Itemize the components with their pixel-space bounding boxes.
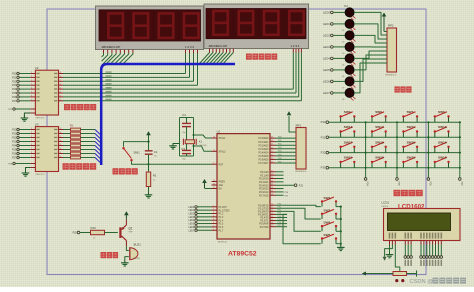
wire: LCD data pins D0-D7 terminals [420,245,443,267]
svg-text:P23: P23 [12,84,17,87]
svg-text:P07: P07 [278,161,281,163]
svg-text:P33: P33 [278,213,281,215]
svg-text:LED7: LED7 [188,230,194,232]
power VCC arrow (RP1 common) [287,111,296,132]
switch SW15 [402,140,418,152]
wire: P1 port to LED nets [188,206,211,233]
svg-text:P25: P25 [12,92,17,95]
svg-text:LED5: LED5 [188,224,194,226]
resistor R1 [146,164,157,194]
wire: RST from reset circuit [149,163,212,165]
switch SW14 [434,140,450,152]
node P35 terminal (buzzer drive) [73,231,91,234]
svg-text:P21: P21 [12,133,17,136]
microcontroller U1 AT89C52 [212,129,276,243]
svg-text:P2.7/A15: P2.7/A15 [259,194,269,197]
svg-text:19: 19 [59,72,61,74]
svg-text:SW7: SW7 [407,110,414,114]
svg-text:P00: P00 [278,137,281,139]
svg-text:5: 5 [213,219,214,221]
svg-text:10: 10 [271,204,273,206]
svg-text:SW5: SW5 [324,233,331,237]
svg-text:P35: P35 [73,233,78,235]
switch SW12 [371,125,387,137]
wire: LCD VDD to power-down arrow [383,245,393,261]
svg-text:29: 29 [213,180,215,182]
switch SW20 [371,156,387,168]
svg-text:P33: P33 [321,166,326,170]
svg-text:P2.0/A8: P2.0/A8 [260,171,269,174]
wire: buzzer to ground [125,257,129,262]
latch U2 74HC573 (digit-select latch) [30,66,63,120]
switch SW10 [434,125,450,137]
svg-text:PNP: PNP [129,232,134,234]
svg-text:6: 6 [213,222,214,224]
svg-text:P25: P25 [299,185,304,187]
svg-text:SW14: SW14 [438,140,447,144]
LED D4 [323,42,355,55]
label: segment latch (red CJK) [63,163,97,170]
svg-text:38: 38 [271,140,273,142]
switch SW16 [371,140,387,152]
LED D1 [323,4,355,20]
svg-text:2: 2 [31,128,32,130]
svg-text:14: 14 [59,148,61,150]
ground: U2 output-enable [21,113,36,121]
svg-text:SW12: SW12 [375,125,384,129]
svg-text:P1.2: P1.2 [219,214,224,216]
svg-text:SW9: SW9 [344,110,351,114]
resistor R10 [91,226,118,240]
svg-text:P02: P02 [278,144,281,146]
wire: DS2 digit-select pins down to latch lines [293,49,301,101]
svg-text:30p: 30p [182,158,185,160]
svg-text:37: 37 [271,144,273,146]
svg-text:X1: X1 [199,139,203,143]
LED D3 [323,31,355,44]
bus: segment data bus (blue) [101,64,235,165]
svg-text:ABCDEFG DP: ABCDEFG DP [102,45,121,49]
switch SW5 [321,233,342,245]
svg-text:R1: R1 [153,174,157,178]
svg-text:Q1: Q1 [128,226,132,230]
svg-text:30: 30 [213,184,215,186]
svg-text:RESPACK-8: RESPACK-8 [295,170,307,173]
svg-text:AT89C52: AT89C52 [228,250,257,257]
wire: DS2 segment pins to bus taps [200,49,234,64]
svg-text:P24: P24 [12,88,17,91]
svg-text:22u: 22u [154,156,157,158]
svg-text:PSEN: PSEN [219,182,226,184]
svg-text:P1.5: P1.5 [219,224,224,226]
power VCC arrow (Q1 emitter) [124,211,129,219]
wire: LED to RP2 bundle [354,12,387,93]
svg-text:P0.0/AD0: P0.0/AD0 [259,137,270,140]
svg-text:P32: P32 [278,210,281,212]
svg-text:24: 24 [271,180,273,182]
svg-text:P37: P37 [278,225,281,227]
svg-text:LED6: LED6 [188,227,194,229]
svg-text:LED5: LED5 [323,68,330,72]
svg-text:P31: P31 [278,207,281,209]
power VCC arrow (reset) [146,131,151,144]
svg-text:LED1: LED1 [323,22,330,26]
svg-text:LM016L: LM016L [381,206,389,208]
svg-text:P0.4/AD4: P0.4/AD4 [259,151,270,154]
svg-text:U2: U2 [35,66,39,70]
capacitor C2 [182,113,191,139]
svg-text:P3.4/T0: P3.4/T0 [260,218,269,220]
svg-text:21: 21 [271,170,273,172]
svg-text:23: 23 [271,177,273,179]
svg-text:LED0: LED0 [323,10,330,14]
svg-text:LED2: LED2 [188,214,194,216]
svg-text:13: 13 [271,213,273,215]
7-segment display module DS2 [204,4,309,49]
wire: contrast feed with off-page arrow [362,272,391,276]
svg-text:32: 32 [271,161,273,163]
svg-text:1k: 1k [153,180,155,182]
svg-text:P3.7/RD: P3.7/RD [260,227,269,229]
LED D2 [323,19,355,32]
svg-text:P1.0/T2: P1.0/T2 [219,207,228,209]
svg-text:CSDN @: CSDN @ [410,279,434,285]
node P27: U2 latch-enable terminal [8,108,35,111]
svg-text:18: 18 [213,150,215,152]
svg-text:RP2: RP2 [388,23,394,27]
svg-text:9: 9 [31,156,32,158]
ground: LCD VSS [386,245,394,258]
svg-text:31: 31 [213,187,215,189]
svg-text:RP1: RP1 [296,123,302,127]
switch SW9 [339,110,355,122]
svg-text:SW20: SW20 [375,156,384,160]
LED D8 [323,88,355,101]
svg-text:P2.3/A11: P2.3/A11 [259,181,269,184]
svg-text:ABCDEFG DP: ABCDEFG DP [209,44,228,48]
svg-text:P0.3/AD3: P0.3/AD3 [259,148,270,151]
switch SW19 [402,156,418,168]
svg-text:P05: P05 [278,154,281,156]
capacitor C3 [181,144,191,160]
svg-text:22: 22 [271,174,273,176]
7-segment display module DS1 [96,6,204,50]
svg-text:XTAL2: XTAL2 [219,151,227,154]
crystal oscillator rails [180,118,194,157]
svg-text:P2.1/A9: P2.1/A9 [260,174,269,177]
svg-text:LED1: LED1 [188,210,194,212]
svg-text:D4: D4 [342,53,344,55]
svg-text:BUZ1: BUZ1 [134,242,142,246]
svg-text:15: 15 [271,219,273,221]
svg-text:11: 11 [271,207,273,209]
svg-text:8: 8 [31,152,32,154]
svg-text:D1: D1 [344,4,348,8]
svg-text:P03: P03 [278,147,281,149]
svg-text:P26: P26 [12,96,17,99]
svg-text:C1: C1 [154,150,158,154]
svg-text:19: 19 [213,137,215,139]
svg-text:P24: P24 [12,145,17,148]
svg-text:74HC573: 74HC573 [35,118,45,120]
ground: SW rail [337,245,345,250]
svg-text:LCD1602: LCD1602 [398,204,425,211]
svg-text:P1.4: P1.4 [219,220,224,222]
svg-text:P20: P20 [12,129,17,132]
svg-text:P36: P36 [428,182,430,187]
svg-text:74HC573: 74HC573 [35,174,45,176]
svg-text:36: 36 [271,147,273,149]
svg-text:SW1: SW1 [134,151,141,155]
svg-text:LED3: LED3 [323,45,330,49]
svg-text:P25: P25 [12,149,17,152]
svg-text:27: 27 [271,190,273,192]
svg-text:D3: D3 [342,42,344,44]
svg-text:P2.6/A14: P2.6/A14 [259,191,269,194]
power VCC arrow (RP2 common) [382,13,387,32]
svg-text:D8: D8 [342,99,344,101]
svg-text:LED3: LED3 [188,217,194,219]
wire: U2 input pins with terminals [12,72,30,103]
buzzer BUZ1 [130,242,141,259]
LED D5 [323,54,355,67]
svg-text:17: 17 [59,136,61,138]
svg-text:18: 18 [59,132,61,134]
svg-text:LCD1: LCD1 [381,201,389,205]
svg-text:P31: P31 [321,135,326,139]
svg-text:12: 12 [59,156,61,158]
svg-text:P0.2/AD2: P0.2/AD2 [259,144,270,147]
svg-text:P21: P21 [12,76,17,79]
switch SW8 [371,110,387,122]
svg-text:SW16: SW16 [375,140,384,144]
svg-text:28: 28 [271,194,273,196]
wire: P0 bus to RP1 [276,137,297,164]
svg-text:C2: C2 [182,113,186,117]
label: matrix keypad (red CJK) [394,190,423,196]
svg-text:BUZZER: BUZZER [133,258,141,260]
svg-text:P3.6/WR: P3.6/WR [259,224,269,226]
svg-text:19: 19 [59,128,61,130]
ground: crystal [169,144,179,150]
potentiometer RV1 (contrast) [391,270,417,282]
svg-text:34: 34 [271,154,273,156]
svg-text:18: 18 [59,76,61,78]
wire: DS1 digit-select pins down to latch lines [186,50,198,86]
svg-text:D2: D2 [342,30,344,32]
svg-text:17: 17 [59,80,61,82]
label: eight-segment display (red CJK) [246,54,277,60]
svg-text:5: 5 [31,84,32,86]
svg-text:R2: R2 [70,124,74,128]
svg-text:9: 9 [31,99,32,101]
svg-text:13: 13 [59,96,61,98]
svg-text:P32: P32 [321,151,326,155]
transistor Q1 PNP [119,219,133,246]
svg-text:P0.7/AD7: P0.7/AD7 [259,162,270,165]
svg-text:P27: P27 [12,100,17,103]
svg-text:9: 9 [213,163,214,165]
svg-text:12: 12 [271,210,273,212]
capacitor C1 [145,136,158,164]
label: running lights (red CJK) [395,86,412,92]
resistor network R2 (8 segment resistors) [63,124,101,164]
label: reset circuit (red CJK) [113,168,138,174]
svg-text:SW11: SW11 [407,125,416,129]
svg-text:LED0: LED0 [188,207,194,209]
svg-text:P2.4/A12: P2.4/A12 [259,184,269,187]
svg-text:P36: P36 [278,222,281,224]
power VCC arrow (EA pin) [202,179,211,189]
LED D6 [323,65,355,78]
svg-text:14: 14 [59,92,61,94]
svg-text:15: 15 [59,88,61,90]
svg-text:R10: R10 [91,226,97,230]
latch U3 74HC573 (segment latch) [30,123,63,176]
svg-text:P34: P34 [366,182,368,187]
svg-text:5: 5 [31,140,32,142]
svg-text:D7: D7 [342,88,344,90]
svg-text:RST: RST [219,164,224,166]
svg-text:P27: P27 [12,157,17,160]
LCD pin stubs and names [389,233,442,245]
svg-text:P23: P23 [12,141,17,144]
svg-text:3: 3 [31,76,32,78]
svg-text:P2.5/A13: P2.5/A13 [259,188,269,191]
resistor pack RP1 RESPACK-8 [295,123,307,173]
svg-text:P3.2/INT0: P3.2/INT0 [258,211,269,213]
svg-text:EA: EA [219,188,223,191]
ground: U3 output-enable [22,168,36,177]
svg-text:P26: P26 [12,153,17,156]
node P26: U3 latch-enable terminal [8,162,35,165]
svg-text:P3.1/TXD: P3.1/TXD [258,208,268,210]
svg-text:SW4: SW4 [324,221,331,225]
svg-text:8: 8 [213,229,214,231]
svg-text:P06: P06 [278,158,281,160]
svg-text:SW6: SW6 [438,110,445,114]
svg-text:1: 1 [213,205,214,207]
wire: P3 staircase to switches SW2-SW5 [283,205,321,244]
svg-text:7: 7 [213,225,214,227]
svg-text:P3.3/INT1: P3.3/INT1 [258,215,269,217]
svg-text:P1.6: P1.6 [219,227,224,229]
sheet border frame [47,9,426,275]
svg-text:LED4: LED4 [323,56,330,60]
svg-text:6: 6 [31,144,32,146]
label: digit-select latch (red CJK) [64,104,96,110]
wire: XTAL2 [193,145,212,151]
svg-text:2: 2 [31,72,32,74]
svg-text:XTAL1: XTAL1 [219,137,227,140]
svg-text:SW15: SW15 [407,140,416,144]
svg-text:U3: U3 [35,123,39,127]
svg-text:P2.2/A10: P2.2/A10 [259,178,269,181]
svg-text:15: 15 [59,144,61,146]
svg-text:1k: 1k [93,238,95,240]
svg-text:P37: P37 [460,182,462,187]
svg-text:8: 8 [31,96,32,98]
wire: LCD control pins RS/RW/E terminals [404,245,412,267]
svg-text:D6: D6 [342,76,344,78]
switch SW7 [402,110,418,122]
svg-text:P30: P30 [278,204,281,206]
svg-text:P20: P20 [12,73,17,76]
svg-text:LED4: LED4 [188,220,194,222]
svg-text:P1.3: P1.3 [219,217,224,219]
wire: keypad row lines with P3.0-P3.3 terminals [321,120,461,170]
wire: SW2-SW5 common rail [340,207,342,247]
switch SW11 [402,125,418,137]
wire: XTAL1 [193,134,212,138]
wire: U3 input pins with terminals [12,128,30,159]
resistor pack RP2 RESPACK-8 [385,23,397,76]
svg-text:4: 4 [31,80,32,82]
switch SW18 [434,156,450,168]
svg-text:2: 2 [213,209,214,211]
svg-text:SW13: SW13 [344,125,353,129]
svg-text:LED7: LED7 [323,91,330,95]
switch SW21 [339,156,355,168]
svg-text:16: 16 [59,140,61,142]
svg-text:16: 16 [59,84,61,86]
label: buzzer (red CJK) [101,252,119,258]
svg-text:SW17: SW17 [344,140,353,144]
svg-text:P35: P35 [397,182,399,187]
svg-text:SW18: SW18 [438,156,447,160]
svg-text:LED6: LED6 [323,79,330,83]
svg-text:RESPACK-8: RESPACK-8 [385,74,397,77]
svg-text:3: 3 [31,132,32,134]
svg-text:P0.1/AD1: P0.1/AD1 [259,141,270,144]
wire: Q1 collector to buzzer [126,246,128,250]
svg-text:P22: P22 [12,80,17,83]
ground: buzzer [121,261,129,266]
svg-text:14: 14 [271,216,273,218]
switch SW3 [321,208,342,220]
switch SW1 (reset button) [122,141,149,166]
LCD display LCD1 LM016L [381,201,460,241]
svg-text:P3.0/RXD: P3.0/RXD [258,205,269,207]
svg-text:P3.5/T1: P3.5/T1 [260,221,269,223]
svg-text:ALE: ALE [219,184,224,187]
svg-text:6: 6 [31,88,32,90]
switch SW2 [321,196,342,208]
svg-text:SW10: SW10 [438,125,447,129]
node P25 terminal [276,184,304,187]
svg-text:P22: P22 [12,137,17,140]
svg-text:26: 26 [271,187,273,189]
svg-text:4: 4 [213,215,214,217]
crystal X1 [183,139,206,147]
wire: keypad column lines [364,121,461,186]
svg-text:P1.1/T2EX: P1.1/T2EX [219,210,231,212]
svg-text:30p: 30p [182,132,185,134]
svg-text:17: 17 [271,225,273,227]
svg-text:25: 25 [271,184,273,186]
svg-text:AT89C52: AT89C52 [218,241,228,244]
svg-text:SW21: SW21 [344,156,353,160]
svg-text:U1: U1 [217,129,221,133]
wire: DS1 segment pins to bus taps [102,50,133,66]
svg-text:33: 33 [271,158,273,160]
svg-text:P35: P35 [278,219,281,221]
svg-text:3: 3 [213,212,214,214]
svg-text:P0.6/AD6: P0.6/AD6 [259,159,270,162]
svg-text:SW19: SW19 [407,156,416,160]
svg-text:12: 12 [59,99,61,101]
svg-text:35: 35 [271,151,273,153]
